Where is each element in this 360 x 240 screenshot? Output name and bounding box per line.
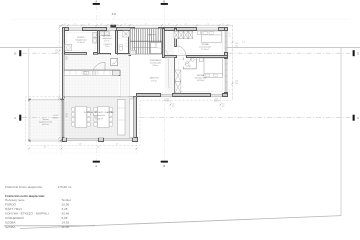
svg-text:2,9: 2,9 [116,144,118,146]
svg-text:1,0: 1,0 [113,63,115,65]
svg-text:11,06: 11,06 [62,225,70,229]
svg-text:Földszinti brutto alapterület: Földszinti brutto alapterület [5,185,42,189]
svg-text:KONYHA - ÉTKEZŐ - NAPPALI: KONYHA - ÉTKEZŐ - NAPPALI [84,111,115,114]
svg-text:2,86: 2,86 [65,116,68,118]
svg-text:2,86: 2,86 [55,118,58,120]
svg-text:0,9: 0,9 [222,106,224,108]
svg-text:1,0: 1,0 [228,33,230,35]
svg-text:FÜRDŐ: FÜRDŐ [77,36,85,39]
svg-text:175,80 m²: 175,80 m² [58,185,72,189]
svg-text:1,35: 1,35 [55,115,58,117]
svg-text:14,93 m²: 14,93 m² [197,79,205,82]
svg-text:B: B [163,164,165,168]
svg-text:1,0: 1,0 [229,90,231,92]
svg-text:1,0: 1,0 [229,56,231,58]
svg-text:HÁZT. HELY: HÁZT. HELY [102,34,112,37]
svg-text:hidegburkolat: hidegburkolat [75,39,87,42]
svg-text:fagyálló kerámia: fagyálló kerámia [39,122,53,124]
svg-text:FÜRDŐ: FÜRDŐ [5,202,17,207]
svg-text:laminált padló: laminált padló [150,62,161,65]
svg-text:laminált padló: laminált padló [199,46,211,49]
svg-text:Helyiség neve: Helyiség neve [5,198,25,202]
svg-text:KÖZLEKEDŐ: KÖZLEKEDŐ [5,215,25,220]
svg-text:1,0: 1,0 [126,43,128,45]
svg-text:ablak: ablak [165,99,169,101]
svg-text:SZOBA: SZOBA [5,221,16,225]
svg-text:7,5: 7,5 [97,147,99,149]
svg-text:0,9: 0,9 [228,36,230,38]
svg-text:B: B [163,0,165,3]
svg-text:HÁZT. HELY: HÁZT. HELY [5,207,22,211]
svg-text:A: A [95,0,97,3]
svg-text:90/150: 90/150 [214,101,219,103]
svg-text:1,35: 1,35 [65,114,68,116]
svg-text:0,9: 0,9 [172,106,174,108]
svg-text:1,0: 1,0 [119,38,121,40]
svg-text:SZOBA: SZOBA [202,43,210,46]
svg-text:1,13: 1,13 [235,45,238,47]
svg-text:laminált padló: laminált padló [195,77,207,80]
svg-text:SZOBA: SZOBA [197,74,205,77]
svg-text:1,4: 1,4 [242,42,244,44]
svg-text:1,35: 1,35 [55,50,58,52]
svg-text:2,86: 2,86 [65,59,68,61]
svg-text:90/150: 90/150 [165,101,170,103]
svg-text:ablak: ablak [215,99,219,101]
svg-text:D: D [357,51,359,55]
svg-text:42,48 m²: 42,48 m² [95,118,103,121]
svg-text:KONYHA - ÉTKEZŐ - NAPPALI: KONYHA - ÉTKEZŐ - NAPPALI [5,211,49,216]
svg-text:12,13 m²: 12,13 m² [201,48,209,51]
svg-text:8,91: 8,91 [112,14,117,16]
svg-text:1,0: 1,0 [119,32,121,34]
svg-text:1,35: 1,35 [65,56,68,58]
svg-text:Terasz: Terasz [43,119,49,121]
svg-text:GARDRÓB: GARDRÓB [149,77,159,80]
svg-text:1,0: 1,0 [119,35,121,37]
svg-text:10,56: 10,56 [62,203,70,207]
svg-text:A: A [95,164,97,168]
svg-text:2,86: 2,86 [55,53,58,55]
svg-text:1,0: 1,0 [126,46,128,48]
svg-text:3,15: 3,15 [79,144,82,146]
svg-text:C: C [14,116,16,120]
svg-text:14,93: 14,93 [62,221,70,225]
svg-text:D: D [14,51,16,55]
svg-text:1,4: 1,4 [53,118,55,120]
svg-text:1,0: 1,0 [126,40,128,42]
svg-text:6,69 m²: 6,69 m² [152,64,158,67]
svg-text:C: C [357,116,359,120]
svg-text:42,48: 42,48 [62,212,70,216]
svg-text:SZOBA: SZOBA [5,225,16,229]
svg-text:2,95 m²: 2,95 m² [151,79,157,82]
svg-text:Terület: Terület [62,198,71,202]
svg-text:6,69: 6,69 [62,216,68,220]
svg-text:hidegburkolat: hidegburkolat [93,114,105,117]
svg-text:1,13: 1,13 [235,83,238,85]
svg-text:KÖZLEKEDŐ: KÖZLEKEDŐ [150,59,162,62]
svg-text:3,3: 3,3 [44,147,46,149]
svg-text:2,0: 2,0 [53,115,55,117]
svg-text:10,56 m²: 10,56 m² [77,41,85,44]
svg-text:3,25: 3,25 [62,207,68,211]
svg-text:40,29 m²: 40,29 m² [42,123,50,126]
